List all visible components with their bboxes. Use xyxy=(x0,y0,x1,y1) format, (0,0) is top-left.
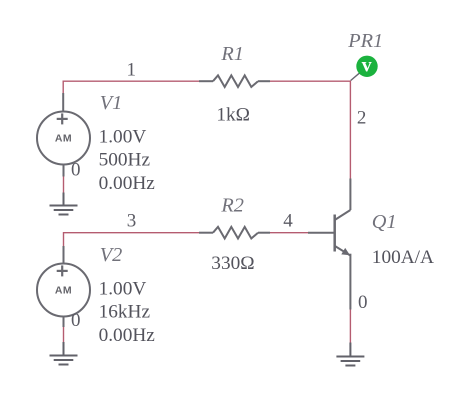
wire net 3 segment V2 top to R2 xyxy=(64,233,200,246)
probe PR1 xyxy=(351,72,361,80)
wire net 1 segment V1 top to R1 xyxy=(63,81,199,93)
svg-text:100A/A: 100A/A xyxy=(372,247,434,268)
resistor R1 xyxy=(199,75,270,87)
emitter arrow of Q1 xyxy=(341,248,350,255)
svg-text:R1: R1 xyxy=(220,43,244,65)
svg-text:0: 0 xyxy=(71,160,81,181)
svg-text:Q1: Q1 xyxy=(372,211,397,233)
svg-text:PR1: PR1 xyxy=(347,30,383,52)
wire net 3 segment R2 to Q1 base xyxy=(270,232,308,234)
wire net 1 segment R1 to corner and down to Q1 collector xyxy=(270,81,350,178)
svg-text:500Hz: 500Hz xyxy=(99,150,151,171)
svg-text:AM: AM xyxy=(55,133,72,145)
svg-text:0.00Hz: 0.00Hz xyxy=(99,325,156,346)
svg-text:1kΩ: 1kΩ xyxy=(216,104,250,125)
svg-text:0: 0 xyxy=(358,292,368,313)
wire V2 bottom to ground xyxy=(63,327,65,342)
voltage source V2 xyxy=(37,246,90,327)
ground below Q1 xyxy=(336,343,364,366)
svg-text:1.00V: 1.00V xyxy=(99,126,147,147)
svg-text:V1: V1 xyxy=(100,92,123,114)
svg-text:0: 0 xyxy=(71,310,81,331)
ground below V1 xyxy=(50,193,78,215)
svg-text:330Ω: 330Ω xyxy=(211,253,254,274)
svg-text:AM: AM xyxy=(55,285,72,297)
svg-text:16kHz: 16kHz xyxy=(99,302,151,323)
svg-text:1.00V: 1.00V xyxy=(99,278,147,299)
transistor Q1 xyxy=(308,179,350,310)
svg-text:R2: R2 xyxy=(220,195,244,217)
voltage source V1 xyxy=(37,93,90,177)
resistor R2 xyxy=(199,227,270,239)
svg-text:3: 3 xyxy=(127,211,137,232)
wire net 0 at Q1 emitter xyxy=(349,310,351,343)
svg-text:1: 1 xyxy=(127,59,137,80)
wire V1 bottom to ground xyxy=(63,177,65,193)
svg-text:2: 2 xyxy=(357,108,367,129)
svg-text:V2: V2 xyxy=(100,244,123,266)
ground below V2 xyxy=(50,342,78,365)
svg-text:4: 4 xyxy=(283,211,293,232)
svg-text:v: v xyxy=(362,54,372,76)
svg-text:0.00Hz: 0.00Hz xyxy=(99,173,156,194)
